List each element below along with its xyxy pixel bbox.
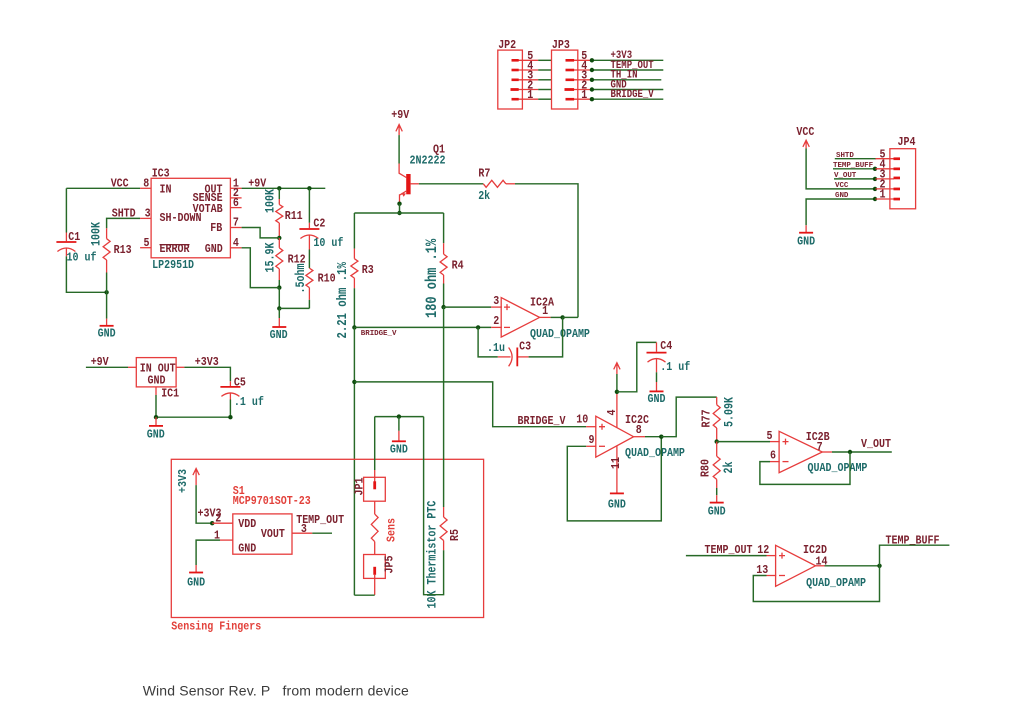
resistor R77 [701,396,737,441]
svg-text:+3V3: +3V3 [177,469,190,493]
resistor R10 [292,264,335,300]
capacitor C3 [487,341,531,367]
ground in sensing box [390,431,408,457]
junction C3 left [476,325,480,329]
wire R7 to feedback corner [515,184,578,318]
svg-text:7: 7 [233,217,239,230]
wire JP2-JP3 pin5 [538,59,551,61]
wire VCC to JP4 pin2 [806,149,875,189]
op-amp IC2A [491,295,590,341]
svg-text:GND: GND [797,236,815,249]
wire VCC down to C1 [65,188,67,232]
op IC3 LP2951D [140,168,242,273]
junction JP4 pin3 [873,177,877,181]
svg-text:100K: 100K [88,221,104,246]
connector JP3 [552,39,591,109]
svg-text:TEMP_OUT: TEMP_OUT [705,544,753,557]
svg-text:2k: 2k [721,462,737,474]
resistor R80 [700,442,737,488]
svg-text:R80: R80 [700,459,713,477]
svg-text:BRIDGE_V: BRIDGE_V [611,88,654,100]
svg-text:IC1: IC1 [161,388,179,401]
connector JP5 [364,555,397,595]
svg-text:11: 11 [610,457,623,469]
svg-text:.1 uf: .1 uf [660,361,690,374]
svg-text:Sens: Sens [386,518,399,542]
svg-text:VCC: VCC [835,182,849,190]
svg-text:C1: C1 [68,231,80,244]
junction [590,97,594,101]
resistor R3 [335,249,374,339]
svg-text:JP5: JP5 [384,555,397,573]
svg-text:2: 2 [493,315,499,328]
svg-text:MCP9701SOT-23: MCP9701SOT-23 [233,495,311,508]
wire JP2-JP3 pin2 [538,89,551,91]
resistor R5 thermistor [424,501,462,609]
svg-text:.5ohm: .5ohm [292,264,308,294]
wire C2 to R10 [308,250,310,269]
ground under S1 [187,565,205,590]
wire to ground [278,308,280,318]
resistor R13 [88,221,132,272]
ground under IC2C pin11 [608,493,626,511]
wire out to feedback corner [563,316,578,318]
svg-text:6: 6 [770,450,776,463]
junction IC1 gnd [154,415,158,419]
junction [590,78,594,82]
wire R13 bottom [106,273,108,293]
svg-text:3: 3 [493,295,499,308]
junction gnd node [277,306,281,310]
wire base to R7 [419,183,483,185]
supply arrow IC2C pin4 [614,363,620,374]
junction JP4 pin1 [873,197,877,201]
wire supply to pin4 [616,374,618,392]
svg-text:3: 3 [145,208,151,221]
svg-text:R77: R77 [701,410,714,428]
supply VCC arrow [796,126,814,148]
capacitor C4 [647,340,691,374]
svg-text:10: 10 [576,414,588,427]
svg-text:QUAD_OPAMP: QUAD_OPAMP [808,462,868,475]
svg-text:GND: GND [270,329,288,342]
wire JP2-JP3 pin1 [538,98,551,100]
svg-text:TEMP_BUFF: TEMP_BUFF [886,535,940,548]
svg-text:C5: C5 [234,377,246,390]
wire S1 pin1 to gnd [196,540,220,565]
junction top rail [397,211,401,215]
wire R80 bottom [716,488,718,495]
wire BRIDGE_V rail [354,326,491,328]
svg-text:.1 uf: .1 uf [234,396,264,409]
svg-text:GND: GND [147,429,165,442]
junction R4/pin3 [441,305,445,309]
svg-text:SHTD: SHTD [836,152,854,160]
wire R4 to IC2A pin3 [444,306,492,308]
svg-text:7: 7 [817,441,823,454]
svg-text:JP2: JP2 [498,39,516,52]
capacitor C5 [220,377,264,410]
capacitor C2 [299,218,343,250]
svg-text:JP3: JP3 [552,39,570,52]
ground under C1/R13 [98,319,116,341]
junction JP4 pin2 [873,187,877,191]
wire C5 bottom [229,400,231,418]
wire +3V3 to S1 VDD [196,485,212,523]
wire V_OUT to JP4 pin3 [834,178,875,180]
svg-text:.1u: .1u [487,342,505,355]
connector JP4 [876,136,916,209]
wire R10 bottom link [279,307,309,309]
svg-text:R3: R3 [362,264,374,277]
wire VCC net to IC3 IN [66,187,140,189]
svg-text:GND: GND [205,243,223,256]
svg-text:180 ohm .1%: 180 ohm .1% [424,238,442,318]
junction [590,58,594,62]
wire net BRIDGE_V [592,98,663,100]
svg-text:10 uf: 10 uf [67,252,97,265]
wire C2 column [308,188,310,223]
wire IC3 pin4 GND [242,248,280,288]
wire GND to JP4 pin1 [806,199,875,225]
junction C5 gnd [228,415,232,419]
svg-text:8: 8 [636,424,642,437]
svg-text:C3: C3 [519,341,531,354]
svg-text:GND: GND [708,506,726,519]
wire R3 bottom [353,288,355,327]
svg-text:5: 5 [144,237,150,250]
wire net TH_IN [592,79,661,81]
wire TEMP_OUT to pin12 [686,555,767,557]
op-amp IC2C [576,392,685,493]
wire TEMP_BUFF to JP4 pin4 [833,168,875,170]
svg-text:V_OUT: V_OUT [834,172,857,180]
svg-text:QUAD_OPAMP: QUAD_OPAMP [806,577,866,590]
svg-text:4: 4 [233,237,239,250]
svg-text:1: 1 [880,189,886,202]
svg-text:Sensing Fingers: Sensing Fingers [171,621,261,634]
wire IC1 gnd [155,395,157,417]
wire JP1 column [374,417,376,470]
ground under R80 [708,495,726,519]
svg-text:1: 1 [527,89,533,102]
wire to C4 [617,342,657,391]
wire JP2-JP3 pin4 [538,69,551,71]
resistor R11 [262,188,303,238]
transistor Q1 2N2222 [399,144,446,204]
wire net TEMP_OUT [592,69,663,71]
junction [590,87,594,91]
svg-text:R11: R11 [285,210,303,223]
svg-text:1: 1 [542,305,548,318]
wire net GND [592,89,663,91]
resistor R4 [424,238,464,318]
sensor S1 MCP9701SOT-23 [212,485,312,555]
svg-text:1: 1 [581,89,587,102]
junction pin4 node [277,285,281,289]
svg-text:GND: GND [608,499,626,512]
svg-text:10K Thermistor PTC: 10K Thermistor PTC [424,501,440,609]
svg-text:2N2222: 2N2222 [410,155,446,168]
wire R3 column to sensing [353,327,355,595]
wire sensing gnd rail [375,416,424,418]
svg-text:C2: C2 [313,218,325,231]
svg-text:GND: GND [835,192,849,200]
wire bridge top rail [354,212,443,214]
wire sensing rail to BRIDGE_V drop [354,382,586,427]
junction gnd rail [397,414,401,418]
wire R5 bottom to gnd rail [424,417,444,595]
wire JP2-JP3 pin3 [538,79,551,81]
svg-text:10 uf: 10 uf [313,237,343,250]
connector JP2 [498,39,538,109]
svg-text:+3V3: +3V3 [195,356,219,369]
svg-text:BRIDGE_V: BRIDGE_V [518,415,566,428]
junction R11 top [277,186,281,190]
svg-text:GND: GND [148,375,166,388]
junction R77/R80 [715,439,719,443]
wire to ground [106,292,108,318]
wire +9V to Q1 collector [398,135,400,163]
svg-text:Wind Sensor Rev. P from mode: Wind Sensor Rev. P from modern device [143,683,409,699]
wire TEMP_OUT stub [312,532,332,534]
junction JP4 pin4 [873,167,877,171]
junction R3/BRIDGE_V [352,325,356,329]
svg-text:GND: GND [238,543,256,556]
wire emitter [399,204,401,213]
svg-text:6: 6 [233,197,239,210]
wire R5 column [443,307,445,507]
svg-text:SH-DOWN: SH-DOWN [160,212,202,225]
ground under C4 [648,382,666,406]
junction supply/C4 [615,390,619,394]
wire C4 bottom [656,372,658,382]
supply +9V arrow [391,109,409,135]
svg-text:8: 8 [143,178,149,191]
wire net +3V3 [592,59,663,61]
svg-text:LP2951D: LP2951D [152,259,194,272]
junction IC2B out [848,450,852,454]
svg-text:14: 14 [816,556,828,569]
wire IC2D output [825,565,880,567]
junction [590,68,594,72]
svg-text:15.9K: 15.9K [262,242,278,273]
svg-text:R4: R4 [452,260,464,273]
wire IC2B output V_OUT [832,451,892,453]
svg-text:R13: R13 [114,244,132,257]
junction sensing rail [352,380,356,384]
wire gnd rail [156,416,230,418]
connector JP1 [354,470,386,501]
svg-text:2k: 2k [478,190,490,203]
svg-text:VCC: VCC [111,178,129,191]
wire C3 right leg [529,317,563,357]
svg-text:QUAD_OPAMP: QUAD_OPAMP [530,328,590,341]
ground under IC1 [147,417,165,442]
svg-text:GND: GND [98,328,116,341]
svg-text:VCC: VCC [796,126,814,139]
wire gnd stub [398,417,400,431]
svg-text:2.21 ohm .1%: 2.21 ohm .1% [335,262,351,339]
wire R4 column top [443,213,445,243]
svg-text:V_OUT: V_OUT [861,438,891,451]
svg-text:FB: FB [210,222,222,235]
resistor Sens [371,501,399,554]
wire +9V to IC1 [86,366,128,368]
wire IC2B feedback [760,452,850,484]
junction IC2A out [560,315,564,319]
svg-text:VDD: VDD [238,518,256,531]
wire R12 bottom [278,280,280,288]
wire JP5 bottom link [354,594,374,596]
svg-text:BRIDGE_V: BRIDGE_V [361,330,397,338]
wire C1 bottom to gnd node [66,256,106,292]
wire out to R77 [661,397,716,437]
wire TEMP_BUFF [880,545,950,566]
svg-text:9: 9 [589,434,595,447]
wire IC2D feedback [753,566,879,602]
wire R4 bottom [443,284,445,308]
wire R10 bottom [308,300,310,309]
svg-text:JP4: JP4 [898,136,916,149]
svg-text:+9V: +9V [391,109,409,122]
svg-text:R7: R7 [478,168,490,181]
svg-text:SHTD: SHTD [112,208,136,221]
svg-text:R10: R10 [318,273,336,286]
wire IC2C output [645,436,661,438]
wire SHTD to JP4 pin5 [835,158,876,160]
svg-text:4: 4 [606,409,619,415]
op-amp IC2D [756,544,866,590]
wire +3V3 out [184,367,230,381]
svg-text:QUAD_OPAMP: QUAD_OPAMP [625,447,685,460]
wire FB [242,228,280,238]
junction C2 top [307,186,311,190]
junction C1/R13/GND [104,290,108,294]
capacitor C1 [56,231,96,264]
wire +9V rail [242,187,326,189]
junction IC2C out [659,435,663,439]
svg-text:C4: C4 [660,340,672,353]
wire down to gnd junction [278,288,280,309]
wire C3 left leg [478,327,498,357]
svg-text:GND: GND [187,577,205,590]
svg-text:JP1: JP1 [354,477,367,495]
ground under R12 [270,318,288,342]
svg-text:ERROR: ERROR [160,243,190,256]
wire R3 column top [353,213,355,249]
wire IC2A output [551,316,563,318]
wire SHTD [107,218,141,228]
svg-text:GND: GND [390,444,408,457]
svg-text:IN: IN [160,184,172,197]
regulator IC1 [128,358,184,401]
ground below VCC column [797,225,815,249]
svg-text:TEMP_BUFF: TEMP_BUFF [833,162,874,170]
svg-text:2: 2 [215,513,221,526]
wire to IC2B pin5 [717,441,770,443]
svg-text:IC3: IC3 [152,168,170,181]
junction R11/R12/FB [277,236,281,240]
resistor R7 [478,168,515,203]
svg-text:5: 5 [767,430,773,443]
junction IC2D out [877,564,881,568]
op-amp IC2B [767,430,868,475]
svg-text:GND: GND [648,393,666,406]
svg-text:+9V: +9V [91,356,109,369]
supply +3V3 arrow [177,469,199,494]
resistor R12 [262,238,306,280]
svg-text:100K: 100K [262,188,278,213]
wire IC2C pin9 feedback [567,437,661,521]
svg-text:R5: R5 [449,529,462,541]
svg-text:TEMP_OUT: TEMP_OUT [296,514,344,527]
svg-text:VOUT: VOUT [261,528,285,541]
svg-text:5.09K: 5.09K [721,396,737,427]
junction VDD [210,521,214,525]
junction emitter [397,202,401,206]
box Sensing Fingers [171,459,483,617]
